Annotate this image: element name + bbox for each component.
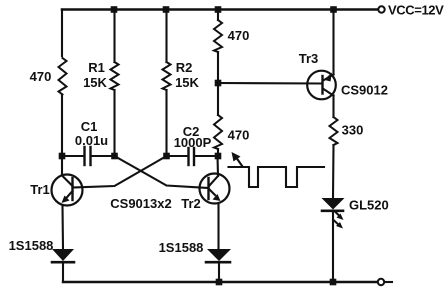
wire 330 to LED bbox=[332, 145, 335, 198]
transistor Tr3 CS9012 bbox=[307, 71, 336, 100]
svg-text:GL520: GL520 bbox=[349, 198, 389, 213]
LED light arrow 1 bbox=[336, 212, 344, 220]
svg-text:Tr2: Tr2 bbox=[181, 196, 201, 211]
svg-text:1S1588: 1S1588 bbox=[9, 238, 54, 253]
wire 470 upper branch bbox=[217, 10, 219, 21]
wire 470 to C2 node bbox=[217, 149, 219, 156]
node Tr3 base junction bbox=[215, 80, 222, 87]
capacitor C1 0.01u bbox=[64, 147, 113, 165]
svg-text:R2: R2 bbox=[176, 60, 193, 75]
svg-text:Tr1: Tr1 bbox=[30, 182, 50, 197]
waveform square wave bbox=[229, 167, 325, 187]
diode 1S1588 (left) bbox=[52, 249, 74, 282]
svg-text:15K: 15K bbox=[175, 75, 199, 90]
wire cross-coupling R1 node to Tr2 base bbox=[115, 156, 209, 188]
node rail-470 junction bbox=[215, 6, 222, 13]
VCC terminal circle bbox=[378, 6, 384, 12]
node R2/C2 junction bbox=[163, 153, 170, 160]
node LED-bottom rail junction bbox=[330, 279, 337, 286]
capacitor C2 1000P bbox=[168, 148, 217, 165]
node D2-bottom rail junction bbox=[216, 279, 223, 286]
resistor 470 (left) bbox=[59, 58, 67, 95]
node C1-left junction bbox=[59, 153, 66, 160]
wire Tr3 emitter bbox=[332, 10, 334, 75]
svg-text:Tr3: Tr3 bbox=[299, 51, 319, 66]
resistor R1 15K bbox=[111, 62, 119, 90]
wire bottom terminal stub bbox=[386, 281, 392, 283]
wire R1 to node bbox=[113, 90, 115, 156]
node rail-Tr3 junction bbox=[330, 6, 337, 13]
svg-text:470: 470 bbox=[228, 128, 250, 143]
resistor 470 (upper right) bbox=[214, 20, 222, 52]
wire 470 to Tr1 collector bbox=[61, 95, 63, 176]
LED light arrow 2 bbox=[334, 220, 344, 229]
wire Tr3 base bbox=[218, 82, 322, 85]
transistor Tr1 CS9013 bbox=[52, 175, 83, 206]
svg-text:C1: C1 bbox=[81, 119, 98, 134]
node C2/Tr2 collector junction bbox=[215, 153, 222, 160]
svg-text:330: 330 bbox=[342, 123, 364, 138]
svg-text:15K: 15K bbox=[83, 75, 107, 90]
svg-text:R1: R1 bbox=[88, 60, 105, 75]
wire R2 branch top bbox=[165, 10, 167, 63]
diode 1S1588 (right) bbox=[206, 249, 231, 282]
node rail-R2 junction bbox=[163, 6, 170, 13]
svg-text:470: 470 bbox=[228, 28, 250, 43]
resistor 470 (lower right) bbox=[214, 115, 222, 149]
svg-text:1000P: 1000P bbox=[174, 135, 212, 150]
resistor 330 bbox=[330, 117, 338, 145]
wire Tr2 collector bbox=[216, 156, 219, 176]
wire Tr2 emitter bbox=[217, 203, 219, 249]
wire Tr1 emitter bbox=[61, 206, 64, 250]
wire R1 branch top bbox=[113, 10, 115, 63]
node R1/C1 junction bbox=[111, 153, 118, 160]
wire LED to bottom rail bbox=[332, 211, 334, 282]
waveform pointer arrow bbox=[232, 152, 243, 167]
svg-text:VCC=12V: VCC=12V bbox=[388, 3, 444, 18]
svg-text:470: 470 bbox=[30, 69, 52, 84]
wire top VCC rail bbox=[62, 8, 378, 11]
svg-text:0.01u: 0.01u bbox=[75, 133, 108, 148]
svg-text:CS9012: CS9012 bbox=[341, 83, 388, 98]
wire Tr3 collector bbox=[332, 96, 334, 118]
svg-text:1S1588: 1S1588 bbox=[159, 240, 204, 255]
wire between 470s bbox=[217, 52, 219, 115]
svg-text:CS9013x2: CS9013x2 bbox=[110, 196, 171, 211]
resistor R2 15K bbox=[163, 62, 171, 90]
transistor Tr2 CS9013 bbox=[200, 174, 230, 204]
LED GL520 bbox=[322, 198, 345, 211]
wire left branch top bbox=[61, 10, 63, 57]
wire bottom rail bbox=[63, 281, 377, 283]
node rail-R1 junction bbox=[111, 6, 118, 13]
wire R2 to node bbox=[165, 90, 167, 156]
bottom terminal circle bbox=[378, 279, 384, 285]
wire cross-coupling R2 node to Tr1 base bbox=[73, 156, 167, 188]
